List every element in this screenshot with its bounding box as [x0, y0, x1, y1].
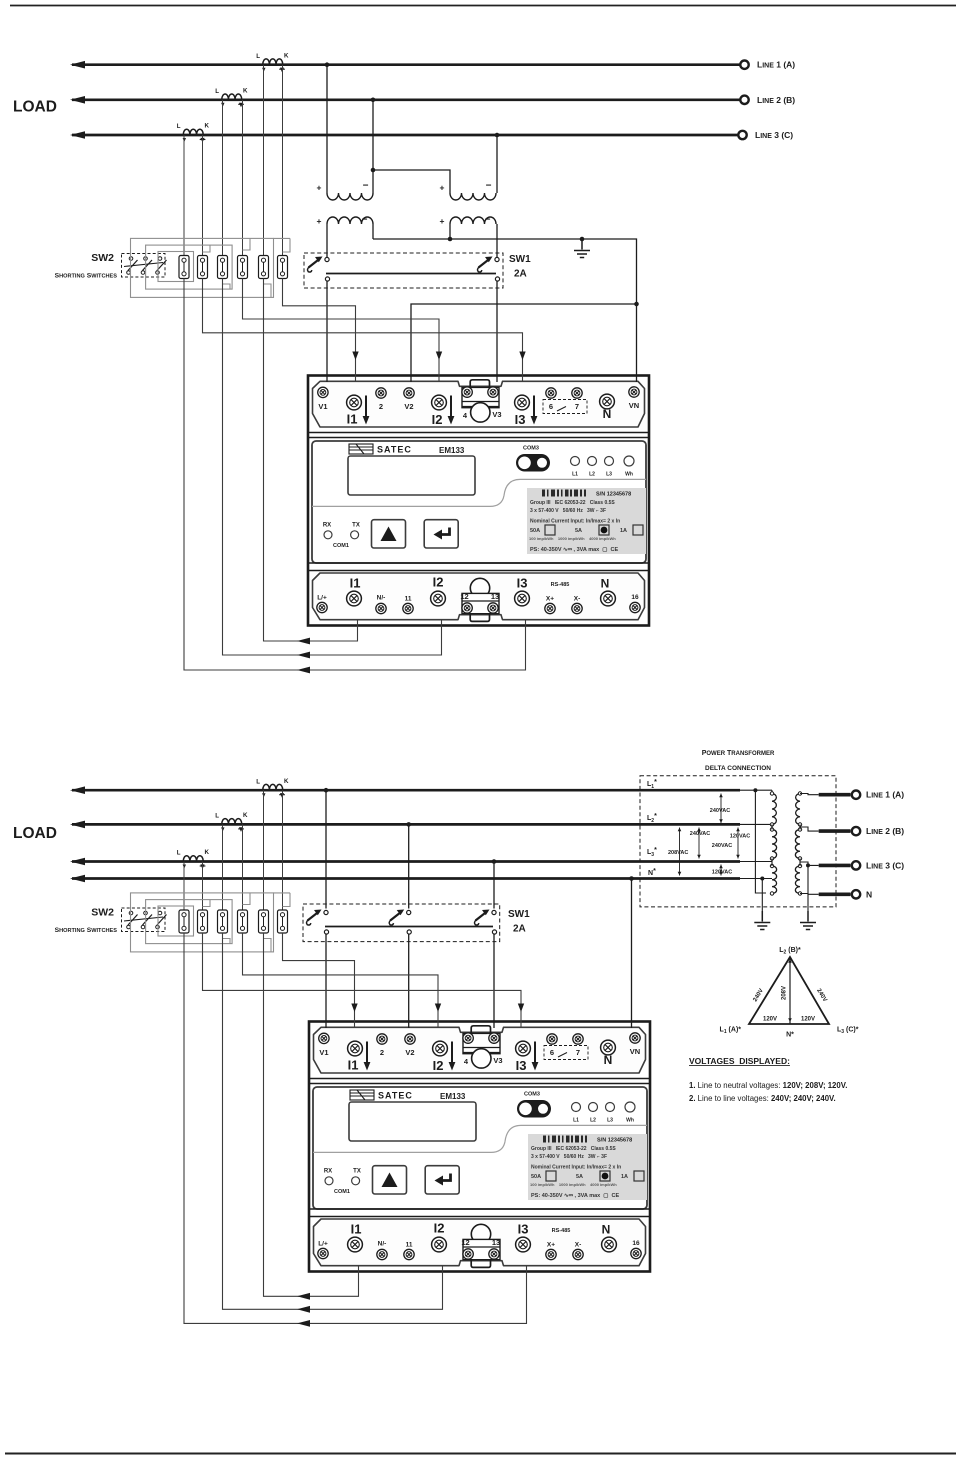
- secondary winding 3: [795, 866, 800, 894]
- voltage arrow L2-L3 right: [737, 828, 739, 859]
- svg-text:208VAC: 208VAC: [668, 850, 688, 856]
- L2 thin extension: [739, 823, 772, 825]
- SW1 fuse 1: [307, 257, 329, 282]
- V2 wire to meter d2: [408, 934, 410, 1028]
- SW2 pole link bar: [124, 263, 163, 267]
- svg-text:2A: 2A: [513, 924, 526, 935]
- svg-text:L: L: [177, 123, 181, 130]
- svg-text:−: −: [362, 215, 368, 226]
- V2 branch wire: [634, 302, 639, 307]
- I3 return wire: [184, 279, 526, 671]
- svg-text:2A: 2A: [514, 269, 527, 280]
- svg-text:+: +: [317, 216, 322, 226]
- PT1 secondary winding: [327, 217, 373, 224]
- line1 junction d2: [324, 788, 329, 793]
- CT3 secondary wires d2: [184, 862, 203, 912]
- svg-text:SW1: SW1: [509, 254, 531, 265]
- SW2 gray routing rect B d2: [146, 900, 233, 944]
- svg-text:L: L: [256, 778, 260, 785]
- voltage arrow L3-N: [720, 865, 722, 876]
- secondary ground stem: [806, 863, 810, 867]
- svg-text:K: K: [284, 778, 289, 785]
- I2 return wire: [223, 279, 442, 656]
- svg-text:VOLTAGES DISPLAYED:: VOLTAGES DISPLAYED:: [689, 1056, 790, 1066]
- SW2 switch poles d2: [127, 911, 138, 929]
- LINE 1 (A) output stub: [819, 793, 851, 797]
- SW1 fuse 3 d2: [474, 910, 496, 935]
- PT2 primary winding: [450, 193, 496, 200]
- I3 feed wire from CT3 K: [203, 279, 523, 383]
- svg-text:DELTA CONNECTION: DELTA CONNECTION: [705, 765, 771, 772]
- primary winding 1: [772, 794, 776, 825]
- line 3 terminal: [738, 131, 746, 139]
- svg-text:120VAC: 120VAC: [730, 834, 750, 840]
- transformer dashed box: [640, 776, 836, 907]
- SW1 fuse 1 d2: [306, 910, 328, 935]
- line3 junction d2: [492, 859, 497, 864]
- line1 junction to PT1: [325, 62, 330, 67]
- I2 return wire d2: [223, 933, 443, 1309]
- I1 return wire d2: [264, 933, 359, 1296]
- voltage arrow L2-N: [679, 828, 681, 876]
- neutral conductor d2: [72, 877, 740, 880]
- line 2 (B) conductor: [72, 98, 740, 101]
- CT3 on line 3 d2: [183, 856, 203, 861]
- line 1 (A) conductor d2: [72, 789, 740, 792]
- svg-text:L: L: [215, 813, 219, 820]
- CT2 secondary wires d2: [223, 824, 243, 911]
- secondary ground: [800, 911, 816, 930]
- svg-text:SW1: SW1: [508, 909, 530, 920]
- primary ground: [754, 911, 770, 930]
- svg-text:240VAC: 240VAC: [710, 808, 730, 814]
- PT1 secondary - lead: [372, 224, 374, 239]
- svg-text:L: L: [215, 88, 219, 95]
- L3 thin extension: [739, 861, 772, 863]
- svg-text:+: +: [440, 216, 445, 226]
- V3 wire to meter d2: [493, 934, 495, 1028]
- SW2 gray routing rect A d2: [131, 893, 274, 952]
- meter EM133 (top diagram): [308, 376, 649, 626]
- page bottom border: [5, 1453, 956, 1455]
- N thin extension: [739, 878, 772, 880]
- PT2 secondary winding: [450, 217, 496, 224]
- CT3 on line 3: [183, 129, 203, 134]
- N output stub: [819, 892, 851, 896]
- svg-text:SW2: SW2: [91, 252, 114, 264]
- svg-text:120VAC: 120VAC: [712, 870, 732, 876]
- I2 feed wire d2: [243, 933, 439, 1028]
- svg-text:240VAC: 240VAC: [690, 831, 710, 837]
- voltage triangle: [749, 957, 829, 1024]
- SW2 terminal blocks: [179, 256, 189, 279]
- SW1 dashed box d2: [303, 904, 500, 942]
- I3 feed wire d2: [203, 933, 522, 1028]
- secondary taps: [800, 794, 819, 895]
- svg-text:208V: 208V: [782, 986, 788, 1000]
- svg-text:L: L: [177, 850, 181, 857]
- LINE 3 (C) output stub: [819, 864, 851, 868]
- SW1 fuse 2 d2: [389, 910, 411, 935]
- line 2 terminal: [740, 96, 748, 104]
- svg-text:+: +: [317, 183, 322, 193]
- SW2 dashed box: [122, 254, 166, 278]
- primary winding 3: [772, 866, 777, 894]
- PT cross wire to PT2: [371, 168, 376, 173]
- svg-text:−: −: [486, 181, 492, 192]
- CT1 secondary wires: [264, 65, 283, 256]
- svg-text:LOAD: LOAD: [13, 99, 57, 116]
- SW1 dashed box: [304, 253, 503, 288]
- page top border: [10, 5, 956, 7]
- PT1 primary winding: [327, 193, 373, 200]
- svg-text:2. Line to line voltages: 240V: 2. Line to line voltages: 240V; 240V; 24…: [689, 1094, 836, 1103]
- PT2 secondary - lead to SW1: [496, 224, 498, 258]
- SW2 gray routing rect A: [131, 238, 274, 297]
- svg-text:−: −: [485, 215, 491, 226]
- delta closing wire: [755, 790, 766, 893]
- svg-text:1. Line to neutral voltages: 1: 1. Line to neutral voltages: 120V; 208V;…: [689, 1081, 847, 1090]
- line2 junction d2: [406, 822, 411, 827]
- PT2 primary right lead: [496, 135, 498, 193]
- I1 feed wire d2: [283, 933, 355, 1028]
- svg-text:L: L: [256, 53, 260, 60]
- CT3 secondary wires: [184, 135, 203, 256]
- voltage arrow L2-L3 left: [698, 828, 700, 859]
- SW1 fuse blade bus d2: [325, 926, 493, 928]
- V1 wire to meter d2: [325, 934, 327, 1028]
- line 1 (A) conductor: [72, 63, 740, 66]
- primary winding 2: [772, 830, 777, 859]
- SW2 gray routing rect C d2: [158, 906, 194, 936]
- line 3 (C) conductor d2: [72, 860, 740, 863]
- VN wire: [636, 304, 638, 382]
- SW2 terminal blocks d2: [179, 910, 189, 933]
- VN wire d2: [631, 879, 633, 1029]
- V1 drop wire d2: [325, 790, 327, 908]
- I1 feed wire from CT1 K: [283, 279, 356, 383]
- secondary neutral bus: [373, 239, 637, 304]
- winding junction links: [772, 825, 800, 867]
- CT1 secondary wires d2: [264, 790, 283, 911]
- SW1 fuse 2: [477, 257, 499, 282]
- line2 junction: [371, 98, 376, 103]
- svg-text:+: +: [440, 183, 445, 193]
- CT2 on line 2 d2: [222, 819, 242, 824]
- I3 return wire d2: [184, 933, 527, 1323]
- I1 return wire: [264, 279, 358, 642]
- svg-text:SHORTING SWITCHES: SHORTING SWITCHES: [55, 927, 118, 934]
- line3 junction: [495, 133, 500, 138]
- svg-text:LOAD: LOAD: [13, 825, 57, 842]
- CT1 on line 1: [263, 59, 283, 64]
- svg-text:N*: N*: [786, 1032, 794, 1039]
- svg-text:120V: 120V: [763, 1017, 777, 1023]
- svg-text:240VAC: 240VAC: [712, 843, 732, 849]
- line 1 terminal: [740, 60, 748, 68]
- SW2 pole link bar d2: [124, 917, 163, 921]
- SW2 switch poles: [127, 257, 138, 275]
- ground connection: [580, 237, 585, 242]
- SW2 gray routing rect C: [158, 252, 194, 282]
- svg-text:POWER TRANSFORMER: POWER TRANSFORMER: [702, 750, 775, 757]
- svg-text:K: K: [243, 88, 248, 95]
- svg-text:120V: 120V: [801, 1017, 815, 1023]
- svg-text:−: −: [363, 181, 369, 192]
- PT2 secondary + lead: [449, 224, 451, 239]
- neutral junction d2: [629, 876, 634, 881]
- PT1 secondary + lead to SW1: [326, 224, 328, 258]
- meter EM133 (bottom diagram): [309, 1022, 650, 1272]
- L1 thin extension: [739, 789, 772, 791]
- line 3 (C) conductor: [72, 134, 740, 137]
- primary ground stem: [761, 879, 763, 912]
- CT1 on line 1 d2: [263, 784, 283, 789]
- triangle vertical 208V: [789, 957, 791, 1024]
- svg-text:K: K: [205, 849, 210, 856]
- CT2 secondary wires: [223, 100, 243, 256]
- V3 wire: [496, 281, 498, 382]
- secondary winding 1: [796, 794, 800, 825]
- V1 wire: [326, 281, 328, 382]
- svg-text:K: K: [205, 123, 210, 130]
- LINE 2 (B) output stub: [819, 829, 851, 833]
- V3 drop wire d2: [493, 862, 495, 909]
- svg-text:SW2: SW2: [91, 907, 114, 919]
- svg-text:K: K: [243, 812, 248, 819]
- SW2 dashed box d2: [122, 908, 166, 932]
- SW2 gray stubs: [203, 238, 291, 297]
- svg-text:K: K: [284, 52, 289, 59]
- svg-text:N: N: [866, 889, 872, 899]
- SW1 fuse blade bus: [326, 273, 496, 275]
- I2 feed wire from CT2 K: [243, 279, 440, 383]
- L1 to winding link: [771, 790, 773, 793]
- secondary winding 2: [795, 830, 800, 859]
- V2 drop wire d2: [408, 824, 410, 908]
- CT2 on line 2: [222, 94, 242, 99]
- PT1 primary left lead: [326, 65, 328, 193]
- svg-text:SHORTING SWITCHES: SHORTING SWITCHES: [55, 273, 118, 280]
- PT1 primary right lead: [372, 100, 374, 193]
- voltage arrow L1-L2: [720, 794, 722, 824]
- SW2 gray stubs d2: [203, 893, 291, 952]
- line 2 (B) conductor d2: [72, 823, 740, 826]
- SW2 gray routing rect B: [146, 245, 233, 289]
